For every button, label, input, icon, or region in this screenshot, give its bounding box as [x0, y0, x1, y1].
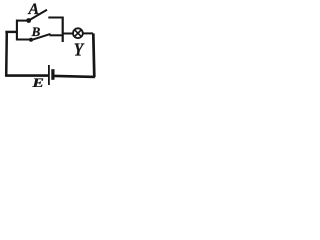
- switch A lever (open): [30, 10, 48, 20]
- wire: right parallel-branch bracket vertical: [62, 17, 64, 43]
- wire: bottom right segment: [55, 76, 95, 77]
- battery E short plate: [51, 69, 54, 80]
- wire: left junction stub to outer loop: [5, 31, 17, 33]
- battery E long plate: [48, 65, 50, 85]
- svg-text:A: A: [28, 1, 40, 18]
- wire: switch A right lead: [48, 17, 63, 19]
- lamp Y circle: [73, 28, 83, 38]
- svg-text:B: B: [31, 24, 41, 39]
- wire: switch B left lead: [16, 39, 30, 41]
- svg-text:E: E: [31, 76, 44, 87]
- wire: switch B right lead: [50, 34, 63, 36]
- svg-text:Y: Y: [74, 39, 85, 59]
- wire: bottom left segment: [5, 74, 48, 77]
- wire: left parallel-branch bracket vertical: [16, 20, 18, 41]
- lamp Y cross stroke 2: [75, 30, 82, 37]
- wire: lamp left lead: [64, 33, 74, 35]
- wire: right outer vertical: [93, 33, 94, 77]
- switch B lever (open): [32, 34, 51, 40]
- lamp Y cross stroke 1: [75, 30, 82, 37]
- node: switch A pivot dot: [26, 18, 31, 23]
- wire: lamp right lead: [83, 32, 93, 34]
- wire: switch A left lead: [16, 20, 27, 22]
- node: switch B pivot dot: [29, 38, 33, 42]
- wire: left outer vertical: [5, 31, 8, 76]
